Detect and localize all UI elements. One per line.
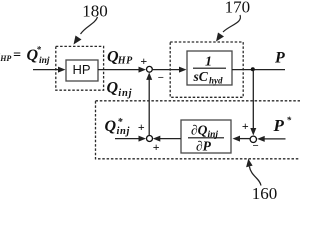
svg-text:inj: inj: [117, 126, 130, 137]
junction 1 (summing): [140, 54, 164, 84]
wire: block to P output: [232, 69, 285, 71]
dashed box 170: [170, 42, 243, 97]
wire: P* into junction 2: [257, 136, 285, 142]
svg-text:+: +: [140, 54, 147, 68]
svg-text:∂P: ∂P: [196, 139, 212, 154]
block HP: [66, 60, 98, 81]
dashed box 160 (right edge off-canvas): [96, 101, 306, 159]
svg-text:+: +: [242, 119, 249, 133]
svg-text:=: =: [13, 48, 21, 63]
svg-text:*: *: [287, 115, 292, 126]
wire: node P down to junction 2: [250, 70, 256, 136]
node P (dot): [251, 67, 255, 71]
label 170: [216, 0, 250, 42]
block dQinj/dP: [181, 120, 231, 154]
svg-text:160: 160: [252, 184, 278, 200]
svg-text:+: +: [138, 120, 145, 134]
svg-text:HP: HP: [0, 54, 11, 63]
svg-text:∂Q: ∂Q: [191, 123, 208, 138]
svg-text:inj: inj: [39, 56, 50, 66]
svg-text:P: P: [274, 49, 285, 66]
label 180: [74, 2, 108, 45]
svg-text:1: 1: [205, 55, 212, 70]
input label Q*HP = Q*inj (cut at left edge): [0, 45, 50, 67]
wire: junction 1 to 1/sC block: [153, 67, 187, 73]
svg-text:P: P: [273, 116, 285, 135]
label Q_inj: [107, 80, 133, 100]
svg-text:170: 170: [225, 0, 251, 17]
wire: junction 3 up to junction 1: [146, 72, 152, 135]
label 160: [246, 159, 277, 203]
svg-text:inj: inj: [118, 88, 132, 99]
label Q*_inj: [105, 117, 130, 137]
wire: Q*_inj into junction 3: [115, 136, 146, 142]
junction 3 (summing): [138, 120, 160, 154]
svg-text:Q: Q: [107, 80, 119, 97]
svg-text:180: 180: [82, 2, 108, 21]
wire: input arrow into HP: [33, 67, 66, 73]
svg-text:−: −: [252, 140, 259, 152]
svg-text:sC: sC: [193, 69, 209, 84]
wire: junction 2 to dQ/dP block: [233, 136, 250, 142]
svg-text:HP: HP: [72, 62, 90, 77]
svg-text:*: *: [37, 45, 42, 55]
label P*: [273, 115, 292, 135]
svg-text:+: +: [153, 140, 160, 154]
label Q_HP: [107, 49, 133, 67]
svg-text:−: −: [157, 72, 164, 84]
svg-text:HP: HP: [117, 56, 133, 67]
svg-text:hyd: hyd: [209, 76, 223, 86]
svg-text:Q: Q: [105, 118, 117, 135]
wire: dQ/dP block to junction 3: [153, 136, 181, 142]
block 1/sC_hyd: [187, 51, 232, 86]
wire: HP to junction 1: [98, 67, 146, 73]
junction 2 (summing): [242, 119, 259, 152]
dashed box 180: [56, 46, 104, 90]
